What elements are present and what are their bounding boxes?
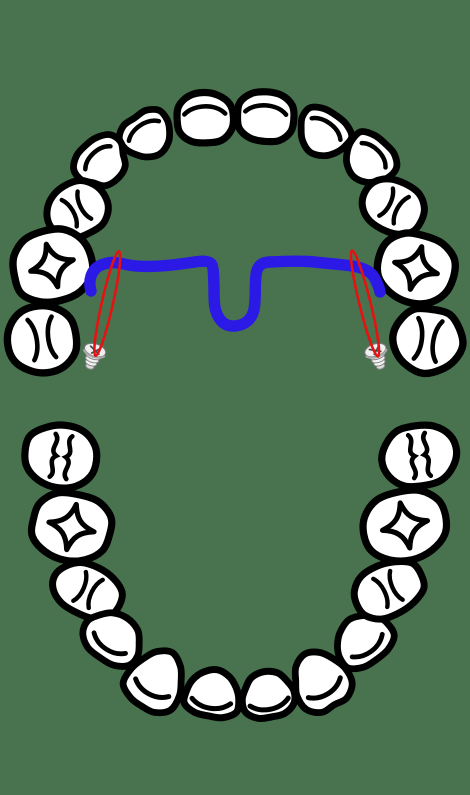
tooth: U premolar R <box>353 169 433 244</box>
blue palatal wire (transpalatal arch with omega loop) <box>90 261 380 326</box>
left screw (mini-implant screw) <box>79 341 108 372</box>
tooth: U central R <box>236 90 295 143</box>
tooth: U central L <box>176 91 235 144</box>
right screw (mini-implant screw) <box>363 341 392 372</box>
tooth: U canine R <box>334 125 404 195</box>
right red ligature loop <box>347 249 384 358</box>
left red ligature loop <box>90 250 124 357</box>
tooth: L premolar R <box>346 551 432 628</box>
tooth: U molar2 R <box>388 305 467 379</box>
tooth: U lateral R <box>288 100 357 167</box>
tooth: U canine L <box>66 126 138 198</box>
tooth: U premolar L <box>37 171 117 248</box>
tooth: L molar1 L <box>26 487 116 569</box>
tooth: L lateral L <box>117 638 198 720</box>
tooth: L central L <box>182 665 245 721</box>
upper dental arch <box>3 90 467 378</box>
tooth: L lateral R <box>280 640 359 720</box>
tooth: L canine L <box>74 600 152 675</box>
tooth: L central R <box>238 667 298 722</box>
tooth: L canine R <box>324 603 401 677</box>
tooth: L premolar L <box>44 552 130 627</box>
tooth: U lateral L <box>113 103 181 169</box>
tooth: L molar2 L <box>21 420 101 492</box>
tooth: U molar1 R <box>370 226 462 312</box>
tooth: U molar1 L <box>5 221 100 310</box>
tooth: L molar1 R <box>357 483 453 568</box>
tooth: L molar2 R <box>378 421 461 491</box>
lower dental arch <box>21 420 461 721</box>
tooth: U molar2 L <box>3 301 81 377</box>
